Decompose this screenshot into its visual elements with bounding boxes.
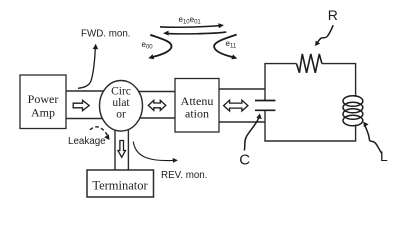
block arrow bidirectional (attenuator to resonator)	[224, 100, 248, 111]
wire circulator to attenuator (bottom)	[140, 117, 175, 119]
svg-text:C: C	[239, 152, 250, 169]
block arrow bidirectional (circulator to attenuator)	[148, 100, 166, 110]
wire resonator top-right	[322, 64, 356, 97]
block Terminator	[87, 170, 154, 197]
wire circulator to terminator (right)	[127, 130, 129, 171]
svg-text:Amp: Amp	[31, 106, 55, 120]
arrow reverse wave	[163, 31, 226, 36]
wire circulator to attenuator (top)	[138, 91, 175, 93]
pointer to C	[244, 114, 261, 151]
svg-text:Leakage: Leakage	[68, 136, 106, 147]
pointer leakage (dashed)	[90, 127, 110, 140]
arrow forward wave	[160, 23, 224, 28]
svg-text:L: L	[380, 148, 388, 164]
pointer REV monitor	[133, 142, 178, 163]
pointer to R	[315, 25, 333, 46]
resistor R	[297, 54, 322, 73]
svg-text:Circ: Circ	[111, 86, 131, 98]
wire Power Amp to circulator (bottom)	[66, 118, 103, 120]
svg-text:FWD. mon.: FWD. mon.	[81, 28, 131, 39]
wire resonator top-left	[265, 64, 297, 101]
block Power Amp	[20, 75, 66, 129]
arrow e00 reflection	[148, 35, 171, 59]
svg-text:Power: Power	[28, 92, 59, 106]
svg-text:ulat: ulat	[112, 97, 130, 109]
block arrow down (circulator to terminator)	[118, 141, 126, 158]
svg-text:R: R	[328, 7, 338, 23]
block arrow forward (Power Amp to circulator)	[73, 100, 89, 110]
inductor L coil	[343, 96, 363, 126]
svg-text:ation: ation	[185, 107, 209, 121]
svg-text:Terminator: Terminator	[92, 179, 148, 193]
capacitor C plates	[255, 101, 275, 111]
wire attenuator to resonator (top)	[219, 88, 265, 90]
wire Power Amp to circulator (top)	[66, 90, 104, 92]
pointer FWD monitor	[78, 44, 98, 89]
circulator U1	[100, 81, 143, 132]
svg-text:REV. mon.: REV. mon.	[161, 170, 207, 181]
svg-text:or: or	[116, 109, 126, 121]
arrow e11 reflection	[214, 35, 237, 60]
block Attenuation	[175, 79, 219, 133]
wire attenuator to resonator (bottom)	[219, 121, 265, 123]
pointer to L	[363, 122, 382, 154]
wire circulator to terminator (left)	[114, 130, 116, 170]
wire resonator right-bottom	[265, 110, 356, 141]
